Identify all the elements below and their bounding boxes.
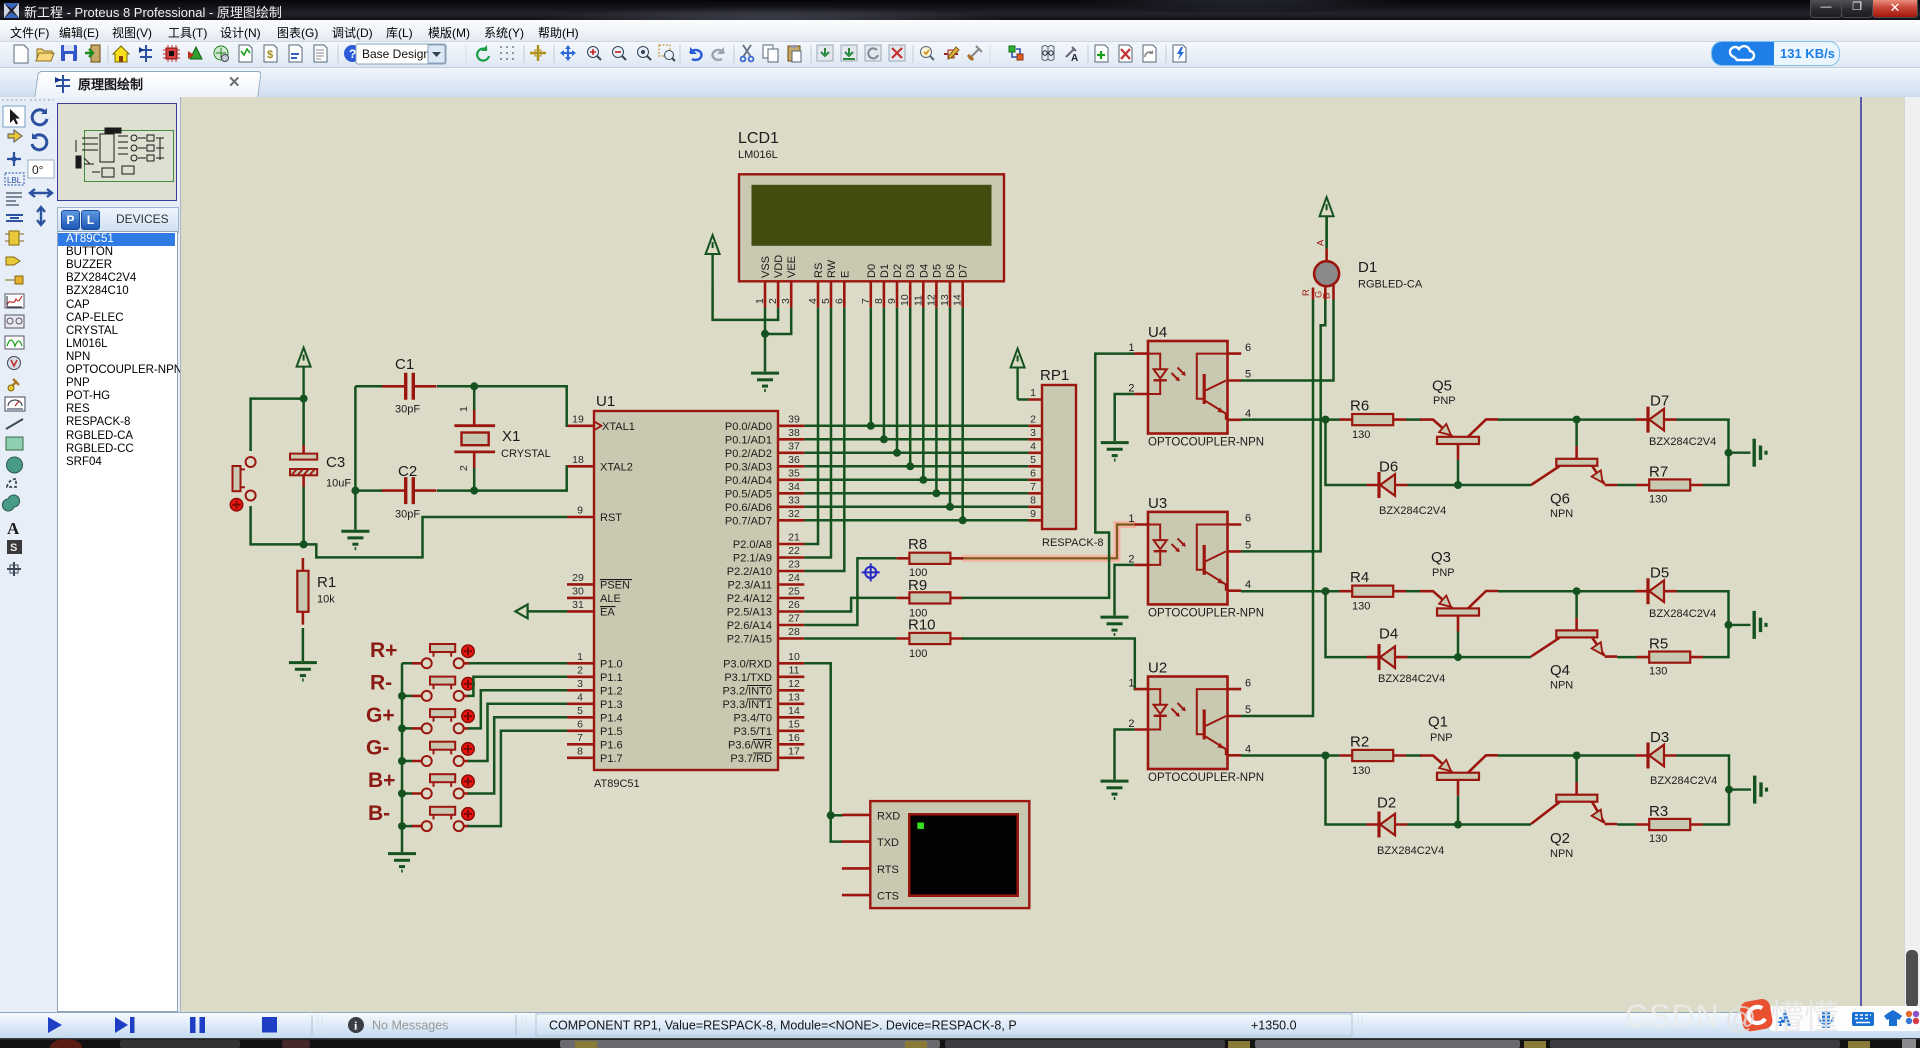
wire B+ to P1.4 [468, 717, 567, 793]
wire D7 to supply node [1677, 420, 1729, 453]
svg-text:RTS: RTS [877, 864, 899, 876]
wire C1-C2 left bus [355, 386, 382, 529]
flip horizontal [30, 189, 52, 197]
diode D6 [1367, 472, 1408, 498]
power arrow (RP1) [1011, 349, 1025, 400]
transistor Q2 NPN [1531, 756, 1617, 825]
goto sheet [1143, 45, 1156, 62]
svg-text:130: 130 [1649, 833, 1667, 845]
wire U2 pin2 to ground [1115, 730, 1135, 780]
svg-text:P3.5/T1: P3.5/T1 [733, 726, 772, 738]
svg-text:0°: 0° [32, 163, 44, 177]
svg-text:D5: D5 [1650, 565, 1669, 582]
transistor Q4 NPN [1531, 591, 1617, 656]
svg-text:P1.5: P1.5 [600, 726, 623, 738]
svg-text:27: 27 [788, 613, 800, 625]
svg-text:12: 12 [788, 678, 800, 690]
wire highlighted core [962, 525, 1134, 559]
svg-text:RP1: RP1 [1040, 367, 1069, 384]
wire crystal pin1 [473, 386, 476, 410]
svg-text:Q4: Q4 [1550, 662, 1570, 679]
junction R4 left [1322, 587, 1330, 595]
red marker (B-) [462, 808, 474, 820]
svg-text:PNP: PNP [1432, 567, 1455, 579]
svg-text:10k: 10k [317, 594, 335, 606]
svg-text:No Messages: No Messages [372, 1019, 448, 1033]
component arrow [8, 130, 22, 142]
svg-text:P0.1/AD1: P0.1/AD1 [725, 435, 772, 447]
svg-text:Q2: Q2 [1550, 830, 1570, 847]
resistor R2 [1339, 750, 1406, 761]
resistor R8 [897, 553, 964, 564]
junction Q4 base top [1573, 587, 1581, 595]
svg-text:P3.3/INT1: P3.3/INT1 [722, 699, 772, 711]
wire U3 pin4 to R4 [1241, 590, 1340, 593]
junctions button bus [398, 692, 406, 830]
wires D0-D7 to P0 bus [871, 308, 963, 521]
svg-text:8: 8 [873, 298, 885, 304]
pushbutton R+ [422, 644, 464, 668]
svg-text:D6: D6 [1379, 459, 1398, 476]
remove sheet [1119, 45, 1132, 62]
wire P2.6 to R8 [804, 558, 896, 625]
svg-text:130: 130 [1352, 429, 1370, 441]
ground (R1) [289, 663, 317, 680]
svg-text:P3.0/RXD: P3.0/RXD [723, 659, 772, 671]
svg-text:12: 12 [925, 294, 937, 306]
pushbutton G- [422, 742, 464, 766]
wire P2.7 to R10 [804, 637, 896, 640]
svg-text:XTAL1: XTAL1 [602, 421, 635, 433]
svg-text:P2.0/A8: P2.0/A8 [733, 539, 772, 551]
wire terminal RXD branch [831, 814, 843, 817]
svg-text:R10: R10 [908, 617, 936, 634]
svg-text:9: 9 [886, 298, 898, 304]
current probe [8, 379, 19, 391]
redo [712, 47, 724, 60]
svg-text:1: 1 [577, 651, 583, 663]
svg-text:NPN: NPN [1550, 848, 1573, 860]
svg-text:P3.7/RD: P3.7/RD [730, 753, 772, 765]
svg-text:R1: R1 [317, 574, 336, 591]
wire Q5 base to D6 row [1457, 460, 1460, 485]
voltage probe [8, 357, 21, 370]
svg-text:D2: D2 [1377, 795, 1396, 812]
ground (U4) [1101, 443, 1129, 460]
svg-text:AT89C51: AT89C51 [594, 778, 640, 790]
new [14, 45, 28, 63]
gerber [214, 46, 229, 62]
junction supply row3 [1725, 786, 1733, 794]
bus [6, 215, 23, 221]
svg-text:D7: D7 [1650, 393, 1669, 410]
block copy [817, 45, 833, 61]
ground (LCD) [751, 373, 779, 390]
RP1 pin numbers [1030, 387, 1036, 520]
svg-text:2: 2 [767, 298, 779, 304]
wire R1 to ground [302, 628, 305, 661]
svg-text:6: 6 [577, 718, 583, 730]
pan [560, 45, 576, 61]
svg-text:S: S [10, 542, 17, 554]
tape [5, 315, 24, 328]
pause [190, 1017, 196, 1033]
svg-text:6: 6 [833, 298, 845, 304]
svg-text:BZX284C2V4: BZX284C2V4 [1377, 845, 1444, 857]
svg-text:BZX284C2V4: BZX284C2V4 [1378, 673, 1445, 685]
svg-text:36: 36 [788, 454, 800, 466]
2d circle [7, 457, 23, 473]
svg-text:X1: X1 [502, 428, 520, 445]
svg-text:9: 9 [577, 505, 583, 517]
svg-text:24: 24 [788, 572, 800, 584]
svg-text:B-: B- [368, 802, 390, 825]
junction C2/X1 [470, 487, 478, 495]
svg-text:R4: R4 [1350, 569, 1369, 586]
svg-text:BZX284C2V4: BZX284C2V4 [1379, 505, 1446, 517]
packaging [968, 46, 982, 60]
junction Q3 base [1454, 653, 1462, 661]
svg-text:4: 4 [807, 298, 819, 304]
wire D4 to Q4 collector [1408, 656, 1532, 659]
info icon [348, 1017, 364, 1033]
svg-text:100: 100 [909, 648, 927, 660]
wire G+ to P1.2 [468, 690, 567, 728]
capacitor C3 electrolytic [290, 444, 317, 487]
make device [944, 47, 959, 59]
flip vertical [37, 207, 45, 225]
wire C2 row to XTAL2 [437, 466, 567, 490]
svg-text:14: 14 [788, 705, 800, 717]
wire Q1 collector row to D3 [1498, 754, 1636, 757]
pushbutton B- [422, 807, 464, 831]
wire EA [528, 610, 568, 613]
resistor R6 [1339, 414, 1406, 425]
svg-text:CRYSTAL: CRYSTAL [501, 448, 551, 460]
svg-text:D2: D2 [892, 264, 904, 278]
ground right (row3) [1729, 776, 1767, 804]
svg-text:31: 31 [572, 599, 584, 611]
subcircuit [5, 231, 24, 245]
svg-text:8: 8 [577, 745, 583, 757]
rotate C [32, 108, 47, 125]
svg-text:NPN: NPN [1550, 680, 1573, 692]
svg-text:21: 21 [788, 532, 800, 544]
svg-text:35: 35 [788, 467, 800, 479]
U1 left pin names [600, 421, 635, 765]
transistor Q1 PNP [1420, 755, 1498, 796]
svg-text:22: 22 [788, 545, 800, 557]
ground (buttons) [388, 854, 416, 871]
red marker (R+) [462, 645, 474, 657]
svg-text:10: 10 [788, 651, 800, 663]
wire VSS to ground [764, 308, 767, 372]
wire RP1 pin1 to power [1018, 398, 1029, 401]
svg-text:30pF: 30pF [395, 404, 420, 416]
svg-text:23: 23 [788, 559, 800, 571]
svg-text:P0.6/AD6: P0.6/AD6 [725, 502, 772, 514]
svg-text:2: 2 [577, 664, 583, 676]
svg-text:P2.7/A15: P2.7/A15 [727, 634, 772, 646]
svg-text:130: 130 [1352, 601, 1370, 613]
svg-text:COMPONENT RP1, Value=RESPACK-8: COMPONENT RP1, Value=RESPACK-8, Module=<… [549, 1019, 1017, 1033]
svg-text:38: 38 [788, 427, 800, 439]
wire D5 to supply node [1677, 591, 1729, 625]
optocoupler U2 [1128, 677, 1264, 785]
marker [7, 562, 21, 576]
svg-text:P1.3: P1.3 [600, 699, 623, 711]
zoom area [659, 45, 675, 61]
svg-text:PNP: PNP [1433, 395, 1456, 407]
wire RST net [304, 517, 568, 557]
home [113, 46, 129, 62]
block rotate [865, 45, 881, 61]
import [85, 45, 100, 62]
resistor R5 [1636, 652, 1703, 663]
transistor Q6 NPN [1531, 420, 1617, 485]
svg-text:3: 3 [1030, 427, 1036, 439]
svg-text:14: 14 [952, 294, 964, 306]
svg-text:U1: U1 [596, 393, 615, 410]
wire D1 anode to power [1325, 216, 1328, 248]
grid [500, 46, 514, 60]
svg-text:BZX284C2V4: BZX284C2V4 [1649, 436, 1716, 448]
svg-text:3: 3 [780, 298, 792, 304]
wire highlighted R8 to U3 pin1 (pink glow) [962, 525, 1136, 559]
ground right (row2) [1729, 611, 1767, 639]
svg-text:28: 28 [788, 626, 800, 638]
virtual terminal [842, 801, 1029, 908]
zoom in [588, 47, 602, 61]
svg-text:R3: R3 [1649, 803, 1668, 820]
U1 clock pin marker XTAL1 [594, 421, 602, 430]
wire E to P2.2 [804, 308, 844, 571]
no-connect arrow (EA) [515, 605, 527, 619]
sheet border [1860, 97, 1862, 1012]
red marker (G-) [462, 743, 474, 755]
lcd pin numbers [754, 294, 964, 306]
power arrow (LCD VDD) [706, 235, 720, 286]
svg-text:17: 17 [788, 745, 800, 757]
svg-text:BZX284C2V4: BZX284C2V4 [1649, 608, 1716, 620]
svg-text:$: $ [267, 49, 273, 61]
generator [5, 336, 24, 349]
diode D7 [1636, 407, 1677, 433]
svg-text:5: 5 [820, 298, 832, 304]
red marker (reset button) [230, 499, 242, 511]
refresh [477, 45, 489, 61]
svg-text:34: 34 [788, 481, 800, 493]
svg-text:R+: R+ [370, 639, 397, 662]
svg-text:EA: EA [600, 607, 615, 619]
svg-text:6: 6 [1030, 467, 1036, 479]
red marker (G+) [462, 710, 474, 722]
svg-text:D4: D4 [1379, 626, 1398, 643]
wire node to D6 [1326, 420, 1367, 485]
svg-text:130: 130 [1649, 494, 1667, 506]
svg-text:10: 10 [899, 294, 911, 306]
wire U2 pin4 to R2 [1241, 754, 1340, 757]
svg-text:15: 15 [788, 718, 800, 730]
svg-text:R8: R8 [908, 536, 927, 553]
svg-text:7: 7 [860, 298, 872, 304]
svg-text:18: 18 [572, 454, 584, 466]
svg-text:PSEN: PSEN [600, 580, 630, 592]
svg-text:1: 1 [458, 406, 470, 412]
optocoupler U4 [1128, 341, 1264, 449]
svg-text:B: B [1322, 293, 1333, 299]
svg-text:P2.5/A13: P2.5/A13 [727, 607, 772, 619]
wire P3.0 to terminal RXD/TXD [804, 663, 843, 841]
graph [5, 294, 24, 308]
red marker (B+) [462, 775, 474, 787]
svg-text:U4: U4 [1148, 324, 1167, 341]
wire D1 B to U4 pin5 [1241, 300, 1334, 381]
diode D4 [1367, 644, 1408, 670]
svg-text:CTS: CTS [877, 891, 899, 903]
svg-text:P2.4/A12: P2.4/A12 [727, 593, 772, 605]
svg-text:P0.0/AD0: P0.0/AD0 [725, 421, 772, 433]
wire D2 to Q2 collector [1408, 823, 1532, 826]
wire P2.5 to R9 [804, 598, 896, 612]
svg-text:D6: D6 [945, 264, 957, 278]
svg-text:Q5: Q5 [1432, 378, 1452, 395]
wire RS to P2.0 [804, 308, 818, 544]
resistor R3 [1636, 819, 1703, 830]
3d view [188, 47, 202, 59]
svg-text:LBL: LBL [7, 176, 22, 185]
svg-text:D3: D3 [905, 264, 917, 278]
svg-text:TXD: TXD [877, 837, 899, 849]
svg-text:R2: R2 [1350, 734, 1369, 751]
svg-text:7: 7 [1030, 481, 1036, 493]
resistor R4 [1339, 586, 1406, 597]
transistor Q3 PNP [1420, 591, 1498, 632]
search [1042, 46, 1054, 61]
2d path [2, 495, 19, 511]
svg-text:ALE: ALE [600, 593, 621, 605]
angle box [28, 160, 54, 178]
wire R6 to Q5 [1406, 418, 1422, 421]
grip dots [2, 99, 54, 101]
2d symbol [7, 540, 22, 554]
wire D1 G to U3 pin5 [1241, 300, 1325, 552]
transistor Q5 PNP [1420, 419, 1498, 460]
terminal [6, 257, 20, 265]
help [344, 45, 361, 62]
svg-text:NPN: NPN [1550, 508, 1573, 520]
svg-text:U3: U3 [1148, 495, 1167, 512]
svg-text:C3: C3 [326, 454, 345, 471]
2d line [6, 419, 23, 429]
svg-text:A: A [1071, 53, 1078, 64]
save [61, 45, 77, 61]
svg-text:@: @ [1725, 1000, 1756, 1035]
netlist [1008, 45, 1024, 61]
wire R3 to supply node [1703, 790, 1729, 825]
wire D6 to Q6 collector [1408, 484, 1532, 487]
resistor R7 [1636, 479, 1703, 490]
combo Base Design [356, 44, 446, 64]
diode D3 [1636, 743, 1677, 769]
junction Q2 base top [1573, 752, 1581, 760]
wire D1 R to U2 pin5 [1241, 300, 1313, 717]
block move [841, 45, 857, 61]
svg-text:1: 1 [1030, 387, 1036, 399]
optocoupler U3 [1128, 512, 1264, 620]
svg-text:Base Design: Base Design [362, 47, 430, 61]
capacitor C2 [382, 477, 437, 504]
wire R10 to U2 pin1 [962, 639, 1135, 690]
svg-text:13: 13 [788, 691, 800, 703]
wire U3 pin2 to ground [1115, 565, 1135, 616]
svg-text:懵懂: 懵懂 [1770, 999, 1838, 1037]
svg-text:25: 25 [788, 586, 800, 598]
svg-text:1: 1 [754, 298, 766, 304]
junction Q6 base top [1573, 416, 1581, 424]
svg-text:11: 11 [789, 664, 800, 676]
svg-text:P3.6/WR: P3.6/WR [728, 740, 772, 752]
svg-text:37: 37 [788, 440, 800, 452]
wire B- to P1.5 [468, 731, 567, 826]
svg-text:7: 7 [577, 732, 583, 744]
diode D5 [1636, 578, 1677, 604]
wire U4 pin4 to R6 [1241, 418, 1340, 421]
svg-text:11: 11 [912, 295, 924, 306]
resistor pack RP1 [1028, 367, 1103, 549]
junction RXD [827, 811, 835, 819]
svg-text:10uF: 10uF [326, 478, 351, 490]
svg-text:XTAL2: XTAL2 [600, 462, 633, 474]
resistor R9 [897, 592, 964, 603]
wire Q2 emitter to R3 [1617, 823, 1636, 826]
svg-text:Q3: Q3 [1431, 549, 1451, 566]
pushbutton reset [233, 457, 256, 501]
junction C1/X1 [470, 382, 478, 390]
2d arc [7, 479, 16, 487]
svg-text:4: 4 [1030, 440, 1036, 452]
open [36, 49, 54, 61]
svg-text:2: 2 [1030, 413, 1036, 425]
svg-text:RS: RS [813, 263, 825, 278]
svg-text:Q6: Q6 [1550, 491, 1570, 508]
diode D2 [1367, 812, 1408, 838]
svg-text:Q1: Q1 [1428, 714, 1448, 731]
wire node to D2 [1326, 756, 1367, 825]
crystal X1 [454, 409, 495, 469]
svg-text:C2: C2 [398, 463, 417, 480]
svg-text:19: 19 [572, 413, 584, 425]
svg-text:PNP: PNP [1430, 732, 1453, 744]
svg-text:P3.4/T0: P3.4/T0 [733, 713, 772, 725]
svg-text:33: 33 [788, 494, 800, 506]
wires P0.0-P0.7 rows to RP1 [804, 426, 1028, 521]
resistor R10 [897, 633, 964, 644]
svg-text:P0.4/AD4: P0.4/AD4 [725, 475, 772, 487]
wire button common bus [402, 663, 412, 852]
svg-text:VEE: VEE [786, 256, 798, 278]
bom [239, 45, 252, 62]
svg-text:8: 8 [1030, 494, 1036, 506]
svg-text:9: 9 [1030, 508, 1036, 520]
svg-text:VDD: VDD [773, 255, 785, 278]
junctions D0-D7 on P0 bus [867, 422, 967, 525]
U1 overlines INT0 INT1 WR RD [747, 686, 772, 754]
svg-text:RXD: RXD [877, 810, 900, 822]
pushbutton R- [422, 677, 464, 701]
svg-text:P1.1: P1.1 [600, 672, 623, 684]
2d box [6, 437, 23, 450]
